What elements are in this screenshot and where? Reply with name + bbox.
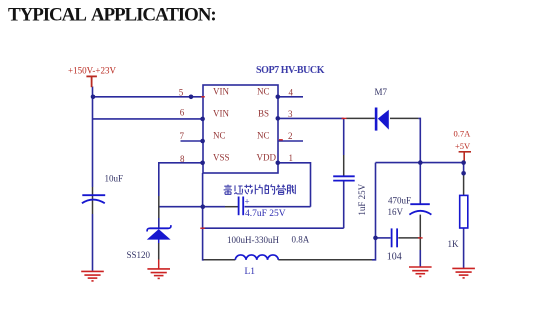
svg-text:4: 4: [289, 88, 294, 98]
svg-text:+: +: [245, 197, 250, 207]
svg-text:M7: M7: [375, 87, 388, 97]
svg-text:2: 2: [288, 131, 293, 141]
svg-text:1K: 1K: [448, 239, 460, 249]
svg-text:VSS: VSS: [213, 152, 230, 162]
svg-text:+150V-+23V: +150V-+23V: [68, 66, 117, 76]
svg-text:10uF: 10uF: [105, 174, 124, 184]
svg-text:VIN: VIN: [213, 109, 229, 119]
svg-text:NC: NC: [257, 131, 270, 141]
svg-text:BS: BS: [258, 109, 269, 119]
svg-text:5: 5: [179, 88, 184, 98]
svg-text:SS120: SS120: [127, 250, 151, 260]
svg-text:NC: NC: [257, 86, 270, 96]
svg-text:0.8A: 0.8A: [292, 235, 310, 245]
svg-text:100uH-330uH: 100uH-330uH: [227, 235, 279, 245]
svg-text:470uF: 470uF: [388, 196, 411, 206]
svg-text:3: 3: [288, 109, 293, 119]
svg-text:NC: NC: [213, 131, 226, 141]
svg-text:8: 8: [180, 154, 185, 164]
svg-text:0.7A: 0.7A: [454, 128, 472, 138]
svg-text:4.7uF 25V: 4.7uF 25V: [245, 209, 286, 219]
svg-text:1: 1: [289, 153, 294, 163]
svg-text:1uF 25V: 1uF 25V: [357, 183, 367, 215]
svg-text:VDD: VDD: [257, 152, 277, 162]
svg-text:VIN: VIN: [213, 86, 229, 96]
svg-text:6: 6: [180, 107, 185, 117]
svg-text:L1: L1: [245, 267, 256, 277]
svg-text:TYPICAL APPLICATION:: TYPICAL APPLICATION:: [8, 5, 216, 26]
svg-text:7: 7: [180, 131, 185, 141]
svg-text:SOP7 HV-BUCK: SOP7 HV-BUCK: [256, 65, 325, 76]
svg-text:104: 104: [387, 251, 402, 262]
svg-text:+5V: +5V: [455, 141, 471, 151]
svg-text:16V: 16V: [388, 207, 404, 217]
